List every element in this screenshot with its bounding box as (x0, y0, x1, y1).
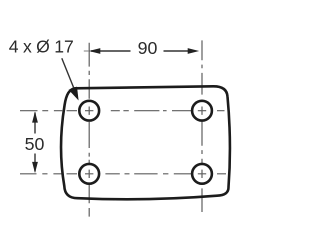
svg-text:4 x Ø 17: 4 x Ø 17 (9, 37, 74, 57)
svg-text:90: 90 (138, 38, 158, 58)
svg-text:50: 50 (25, 134, 45, 154)
